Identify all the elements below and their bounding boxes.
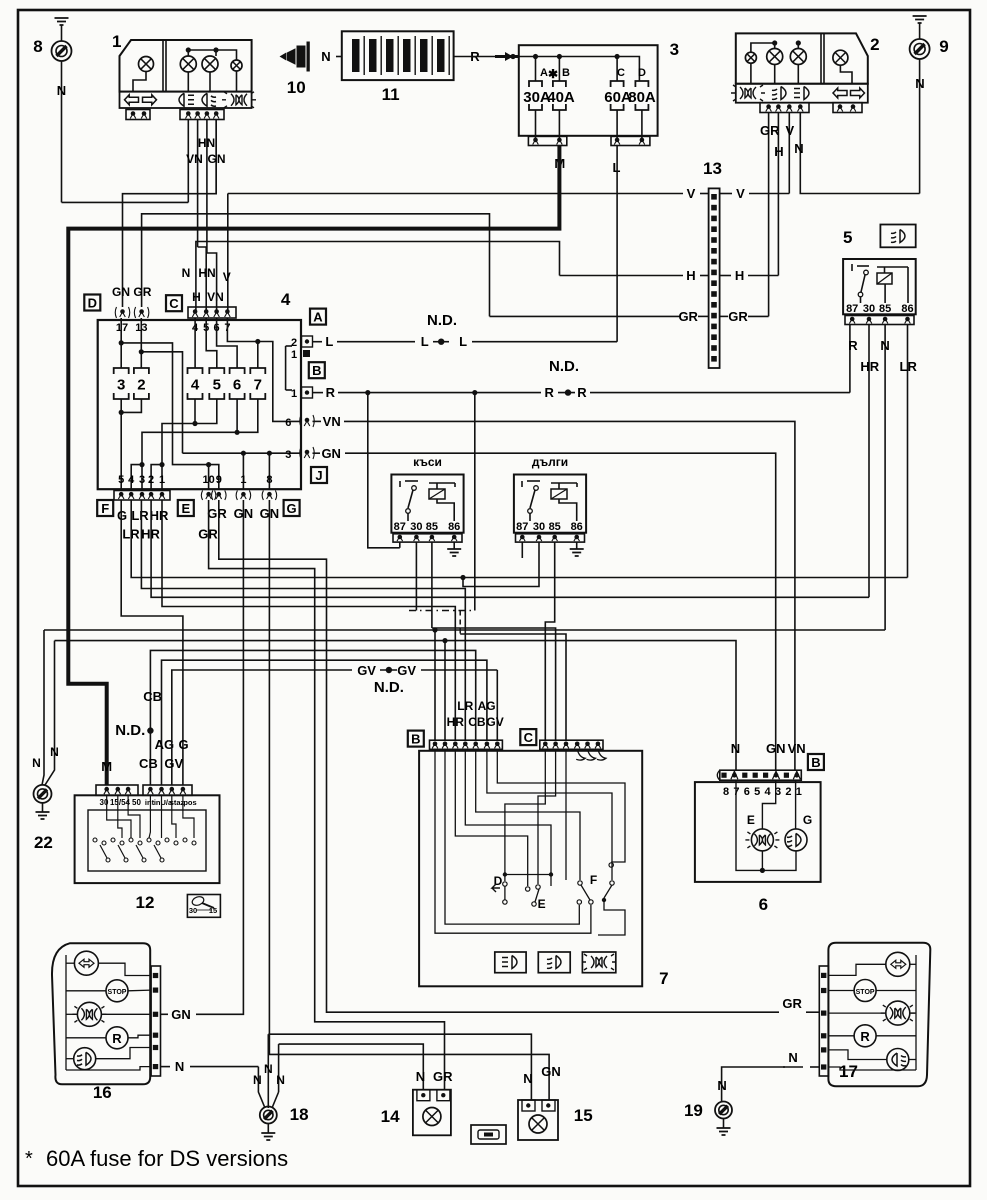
- item7 icon box parking: [582, 952, 615, 973]
- svg-text:N: N: [50, 745, 59, 759]
- wire N line2 branch item7 B2: [444, 641, 446, 741]
- svg-text:GR: GR: [760, 123, 780, 138]
- item16 connector strip: [151, 966, 160, 1076]
- item17 fog lamp: [887, 1049, 909, 1071]
- wire HR item4 F1 to item7 B3: [162, 500, 455, 740]
- svg-text:6: 6: [233, 377, 241, 394]
- svg-text:30: 30: [410, 521, 422, 533]
- svg-text:pos: pos: [183, 798, 196, 807]
- connector B label: [309, 362, 325, 378]
- wire GN item4 G1 to item16: [196, 500, 243, 1014]
- svg-text:1: 1: [240, 474, 246, 486]
- svg-text:18: 18: [290, 1105, 309, 1124]
- svg-text:12: 12: [136, 893, 155, 912]
- svg-text:4: 4: [128, 474, 135, 486]
- wire CB item12 to item7 B5: [150, 650, 475, 785]
- svg-text:✱: ✱: [548, 67, 558, 81]
- wire HR item4 F2 to relay5 30: [151, 500, 869, 597]
- wire N item16 to item18: [161, 1066, 171, 1068]
- svg-text:V: V: [785, 123, 794, 138]
- item12 connector left: [96, 785, 138, 795]
- wire LR item4 F4 to relay5 86: [131, 500, 907, 578]
- svg-text:N.D.: N.D.: [115, 722, 145, 739]
- dylgi ground: [576, 542, 578, 549]
- svg-text:C: C: [524, 730, 534, 745]
- wire N from item9 down: [919, 59, 921, 194]
- svg-text:7: 7: [659, 969, 668, 988]
- svg-text:GR: GR: [433, 1069, 453, 1084]
- svg-text:HR: HR: [447, 715, 465, 729]
- wire GR item2: [768, 113, 770, 317]
- item2 internal wires: [750, 63, 752, 83]
- item4 pins 10 9 join: [206, 462, 211, 467]
- connector D pins: [120, 309, 125, 314]
- item16 reverse lamp: [106, 1027, 128, 1049]
- item4 wire pin17 to fuse3 and bus: [120, 318, 122, 368]
- rear lamp cluster 16 body: [52, 943, 150, 1084]
- license plate icon box: [471, 1125, 506, 1144]
- svg-text:N: N: [416, 1069, 425, 1084]
- wire N item6 down from N2 line: [55, 641, 737, 771]
- svg-text:3: 3: [670, 40, 679, 59]
- svg-text:F: F: [590, 873, 597, 887]
- svg-text:1: 1: [291, 349, 297, 361]
- svg-text:2: 2: [148, 474, 154, 486]
- wire R branch to ksi relay 87: [368, 393, 400, 548]
- wire H item4 C4 jog: [196, 242, 560, 311]
- wire GV item12 to item7 B7: [172, 670, 352, 785]
- svg-text:87: 87: [516, 521, 528, 533]
- item4 GN bus to pins G1 G8: [183, 452, 302, 454]
- svg-text:VN: VN: [186, 152, 203, 166]
- svg-text:N.D.: N.D.: [549, 358, 579, 375]
- svg-text:8: 8: [266, 474, 272, 486]
- wire H item2: [777, 113, 779, 276]
- svg-text:VN: VN: [323, 414, 341, 429]
- svg-text:STOP: STOP: [856, 989, 875, 996]
- svg-text:STOP: STOP: [108, 989, 127, 996]
- license plate lamp 14: [413, 1090, 451, 1136]
- item16 tail lamp: [77, 1002, 101, 1026]
- icon turn left item2: [833, 88, 847, 98]
- item17 internal wires: [915, 955, 917, 1070]
- svg-text:86: 86: [901, 303, 913, 315]
- rear lamp cluster 17 body: [828, 943, 930, 1086]
- kysi connector: [393, 534, 462, 542]
- wire kysi85 to item7 C2: [432, 628, 556, 740]
- svg-text:G: G: [287, 501, 297, 516]
- svg-text:LR: LR: [900, 359, 918, 374]
- ground bolt 18: [260, 1107, 277, 1124]
- svg-text:5: 5: [118, 474, 124, 486]
- connector C pins: [188, 307, 236, 318]
- svg-text:3: 3: [285, 449, 291, 461]
- svg-text:R: R: [577, 385, 587, 400]
- item4 fuse 6: [230, 368, 245, 399]
- svg-text:GN: GN: [171, 1007, 191, 1022]
- item7 icon box low beam: [495, 952, 526, 973]
- item16 turn lamp: [74, 951, 98, 975]
- relay5 wire HR: [868, 325, 870, 598]
- svg-text:V: V: [736, 186, 745, 201]
- connector A label: [310, 309, 326, 325]
- svg-text:GN: GN: [541, 1064, 561, 1079]
- item4 VN pin6 out: [305, 418, 310, 423]
- svg-text:85: 85: [426, 521, 438, 533]
- svg-text:N: N: [523, 1071, 532, 1086]
- wire VN line from item4 to item6: [344, 421, 795, 770]
- dylgi coil: [551, 489, 567, 499]
- svg-text:16: 16: [93, 1083, 112, 1102]
- kysi wire 30 dashdot: [415, 542, 417, 610]
- svg-text:HR: HR: [860, 359, 879, 374]
- svg-text:V: V: [223, 270, 231, 284]
- svg-text:GV: GV: [357, 663, 376, 678]
- svg-text:5: 5: [213, 377, 221, 394]
- lamp item2 parking: [745, 52, 756, 63]
- item12 internal contacts: [88, 810, 206, 871]
- item2 icon strip: [736, 84, 868, 103]
- svg-text:B: B: [811, 755, 820, 770]
- wire GR item4 E9 to item17: [219, 500, 779, 1012]
- svg-text:F: F: [101, 501, 109, 516]
- svg-text:J: J: [315, 468, 322, 483]
- ground symbol above item 9: [913, 16, 927, 23]
- svg-text:CB: CB: [139, 756, 158, 771]
- relay dylgi body: [514, 475, 586, 533]
- item4 GN pin3 out: [305, 450, 310, 455]
- wire GR item4 E10 to item14: [209, 500, 445, 1090]
- relay kysi body: [391, 475, 463, 533]
- wire N from item 8: [61, 61, 63, 202]
- svg-text:N: N: [794, 141, 803, 156]
- svg-text:HN: HN: [198, 136, 215, 150]
- icon park item2: [794, 87, 809, 100]
- item4 wire pin13 to fuse2 and GN bus: [140, 318, 142, 368]
- wire GR item2 to item4 D13: [142, 214, 490, 317]
- wire VN item1 to C5: [198, 247, 207, 310]
- wire GR line to strip13: [490, 315, 681, 317]
- svg-text:7: 7: [254, 377, 262, 394]
- item7 icon box low beam2: [538, 952, 570, 973]
- item1 internal wires: [188, 50, 236, 60]
- svg-text:5: 5: [754, 786, 760, 798]
- svg-text:GR: GR: [207, 506, 227, 521]
- relay5 wire LR: [907, 325, 909, 578]
- icon turn right item2: [851, 88, 865, 98]
- connector D label: [84, 295, 100, 311]
- license plate lamp 15: [518, 1100, 558, 1140]
- svg-text:10: 10: [287, 78, 306, 97]
- item7 connector B: [430, 740, 503, 749]
- item1 connector block left: [126, 110, 150, 120]
- wire LR item4 F3 to item7 B4: [141, 500, 465, 740]
- item4 fuse 3: [114, 368, 129, 399]
- svg-text:86: 86: [571, 521, 583, 533]
- svg-text:GN: GN: [766, 741, 786, 756]
- svg-text:N: N: [788, 1050, 797, 1065]
- svg-text:E: E: [181, 501, 190, 516]
- svg-text:14: 14: [381, 1107, 400, 1126]
- relay5 switch contact: [851, 264, 853, 271]
- item4 fuse 4: [188, 368, 203, 399]
- svg-text:10: 10: [202, 474, 214, 486]
- item4 fuse 7: [250, 368, 265, 399]
- svg-text:A: A: [540, 67, 548, 79]
- item22 N wires: [42, 630, 44, 785]
- svg-text:1: 1: [291, 388, 297, 400]
- svg-text:H: H: [686, 268, 695, 283]
- wire V down to C7: [227, 194, 229, 311]
- item2 connector right: [833, 103, 862, 113]
- connector B label item7: [408, 731, 424, 747]
- wire VN item1: [197, 120, 199, 248]
- lamp item2 high: [790, 49, 806, 65]
- svg-text:50: 50: [132, 798, 141, 807]
- svg-text:C: C: [169, 296, 179, 311]
- icon box low beam item5: [880, 225, 915, 248]
- svg-text:M: M: [101, 759, 112, 774]
- svg-text:4: 4: [765, 786, 772, 798]
- svg-text:E: E: [747, 813, 755, 827]
- item12 internal wires: [107, 795, 131, 838]
- wire G item4 F5 to item12: [121, 500, 183, 785]
- connector C label: [166, 295, 182, 311]
- item6 internal wires: [736, 780, 796, 870]
- svg-text:30: 30: [533, 521, 545, 533]
- svg-text:A: A: [313, 310, 323, 325]
- svg-text:87: 87: [394, 521, 406, 533]
- icon low beam item1: [202, 93, 216, 106]
- svg-text:22: 22: [34, 833, 53, 852]
- fusebox3 connector left: [528, 136, 566, 145]
- svg-text:3: 3: [117, 377, 125, 394]
- wire AG item12 to item7 B6: [162, 660, 487, 785]
- svg-text:R: R: [326, 385, 336, 400]
- connector J label: [311, 467, 327, 483]
- item4 wire C6 to fuse6: [217, 318, 238, 368]
- kysi switch contact: [399, 481, 401, 487]
- svg-text:V: V: [687, 186, 696, 201]
- item1 connector block right: [180, 110, 224, 120]
- svg-text:9: 9: [939, 37, 948, 56]
- lamp in item 1 left compartment: [139, 57, 154, 72]
- svg-text:17: 17: [839, 1062, 858, 1081]
- svg-text:3: 3: [139, 474, 145, 486]
- svg-text:HR: HR: [150, 508, 169, 523]
- wire N item17 to item19: [722, 1067, 803, 1102]
- svg-text:CB: CB: [468, 715, 486, 729]
- svg-text:G: G: [179, 737, 189, 752]
- relay5 connector: [845, 316, 914, 325]
- svg-text:GR: GR: [728, 309, 748, 324]
- svg-text:D: D: [638, 67, 646, 79]
- relay 5 body: [843, 259, 916, 314]
- svg-text:LR: LR: [457, 699, 473, 713]
- ground bolt 9: [910, 39, 930, 59]
- svg-text:N: N: [915, 76, 924, 91]
- item16 fog lamp: [74, 1048, 96, 1070]
- fusible link box 11: [342, 31, 454, 80]
- svg-text:1: 1: [159, 474, 165, 486]
- svg-text:D: D: [88, 296, 97, 311]
- svg-text:R: R: [545, 385, 555, 400]
- dylgi connector: [516, 534, 585, 542]
- svg-text:GR: GR: [678, 309, 698, 324]
- wire N mid to item15: [268, 1034, 531, 1100]
- svg-text:N: N: [57, 83, 66, 98]
- svg-text:4: 4: [281, 290, 291, 309]
- lamp item1 high beam: [231, 60, 242, 71]
- icon parking item1: [179, 93, 194, 106]
- svg-text:N: N: [253, 1073, 262, 1087]
- svg-text:4: 4: [191, 377, 200, 394]
- relay5 wire N: [884, 325, 886, 631]
- svg-text:дълги: дълги: [532, 455, 568, 469]
- svg-text:N: N: [717, 1078, 726, 1093]
- item4 wire C7 to fuse7 and VN out: [227, 318, 301, 421]
- ground bolt 8: [52, 41, 72, 61]
- wire GN item1 to item4 D17: [123, 120, 217, 308]
- wire N line1 item22 to relay5 85 and item7 B1: [44, 629, 885, 631]
- item4 A pin1 mark: [303, 350, 310, 357]
- svg-text:L: L: [325, 334, 333, 349]
- svg-text:N: N: [182, 266, 191, 280]
- svg-text:30: 30: [189, 906, 197, 915]
- connector strip 13: [709, 188, 720, 368]
- svg-text:*: *: [25, 1148, 33, 1170]
- svg-text:VN: VN: [207, 290, 224, 304]
- wire C3 link: [460, 634, 566, 740]
- kysi wire 85 down: [431, 542, 433, 628]
- item4 wire C4 to fuse4: [194, 318, 196, 368]
- icon high item2: [731, 85, 765, 101]
- variant dash-dot link: [409, 610, 475, 612]
- svg-text:9: 9: [216, 474, 222, 486]
- svg-text:85: 85: [879, 303, 891, 315]
- item17 connector strip: [819, 966, 828, 1076]
- svg-text:2: 2: [137, 377, 145, 394]
- switch unit 7 body: [419, 751, 642, 987]
- svg-text:11: 11: [382, 85, 400, 104]
- svg-text:GR: GR: [782, 996, 802, 1011]
- item4 wire C5 to fuse5: [206, 318, 217, 368]
- kysi ground: [453, 542, 455, 549]
- svg-text:6: 6: [285, 417, 291, 429]
- svg-text:87: 87: [846, 303, 858, 315]
- wire H line to strip13: [560, 275, 684, 277]
- wire R up to relay5 87: [849, 325, 851, 393]
- ground symbol above item 8: [55, 18, 69, 25]
- lamp item1 parking: [180, 56, 196, 72]
- svg-text:GV: GV: [164, 756, 183, 771]
- item4 A pin2 L out: [302, 336, 313, 347]
- svg-text:8: 8: [33, 37, 42, 56]
- item4 fuse 5: [209, 368, 224, 399]
- svg-text:B: B: [411, 732, 420, 747]
- svg-text:GV: GV: [397, 663, 416, 678]
- svg-text:N.D.: N.D.: [374, 679, 404, 696]
- connector C label item7: [520, 729, 536, 745]
- svg-text:1: 1: [112, 32, 121, 51]
- svg-text:15/54: 15/54: [110, 798, 131, 807]
- lamp item2 right compartment: [833, 50, 848, 65]
- item17 stop lamp: [854, 980, 876, 1002]
- svg-text:1: 1: [796, 786, 802, 798]
- svg-text:N: N: [880, 338, 889, 353]
- icon turn left: [125, 95, 139, 105]
- svg-text:N.D.: N.D.: [427, 312, 457, 329]
- svg-text:B: B: [562, 67, 570, 79]
- wire GN item4 G8 to item15: [269, 500, 549, 1100]
- item18 N wires: [258, 1067, 265, 1108]
- lamp item2 low: [767, 49, 783, 65]
- wire V line item4 C7 to strip13 to item2: [228, 193, 683, 195]
- svg-text:B: B: [312, 363, 321, 378]
- fusebox3 fuse bottom wires: [535, 110, 537, 141]
- svg-text:N: N: [264, 1062, 273, 1076]
- wire LR jog to dylgi 30: [460, 575, 465, 580]
- svg-text:80A: 80A: [628, 89, 656, 106]
- item4 A2 bracket link: [285, 346, 287, 390]
- kysi coil: [429, 489, 445, 499]
- item16 internal wires: [65, 955, 67, 1070]
- svg-text:N: N: [32, 756, 41, 770]
- icon high beam item1: [222, 92, 256, 108]
- item4 fuse4/5 bottom bus: [192, 421, 197, 426]
- svg-text:13: 13: [703, 159, 722, 178]
- svg-text:40A: 40A: [547, 89, 575, 106]
- svg-text:GN: GN: [321, 446, 341, 461]
- svg-text:8: 8: [723, 786, 729, 798]
- wire N item8 to item1: [62, 201, 189, 203]
- item4 B pin1 R out: [302, 387, 313, 398]
- svg-text:6: 6: [744, 786, 750, 798]
- wire N item2: [800, 113, 919, 194]
- svg-text:19: 19: [684, 1101, 703, 1120]
- fusebox3 connector right: [611, 136, 650, 145]
- svg-text:5: 5: [843, 228, 852, 247]
- svg-text:60A fuse for DS versions: 60A fuse for DS versions: [46, 1146, 288, 1171]
- wire HN item1 to C6: [207, 253, 217, 310]
- svg-text:2: 2: [870, 35, 879, 54]
- dylgi wire 85 to item7 C1: [545, 542, 554, 740]
- svg-text:2: 2: [785, 786, 791, 798]
- item17 reverse lamp: [854, 1025, 876, 1047]
- svg-text:H: H: [735, 268, 744, 283]
- ground bolt 19: [715, 1102, 732, 1119]
- svg-text:E: E: [538, 897, 546, 911]
- item4 fuse6/7 bottom bus: [235, 430, 240, 435]
- svg-text:R: R: [848, 338, 858, 353]
- svg-text:30: 30: [100, 798, 109, 807]
- icon low item2: [772, 87, 786, 100]
- item12 connector right: [143, 785, 192, 795]
- wire GN item1: [215, 120, 217, 194]
- item2 connector left: [760, 103, 809, 113]
- svg-text:L: L: [459, 334, 467, 349]
- relay5 coil: [877, 273, 892, 284]
- horn icon 10: [281, 46, 306, 67]
- fusebox 3 body: [519, 45, 658, 136]
- wire GN line from item4 to item6: [345, 453, 776, 770]
- svg-text:GN: GN: [112, 285, 130, 299]
- item6 connector B strip: [720, 770, 802, 780]
- fusebox3 internal feed bus: [513, 57, 639, 82]
- svg-text:GV: GV: [486, 715, 503, 729]
- wire HN item1: [206, 120, 208, 254]
- ground bolt 22: [34, 785, 52, 803]
